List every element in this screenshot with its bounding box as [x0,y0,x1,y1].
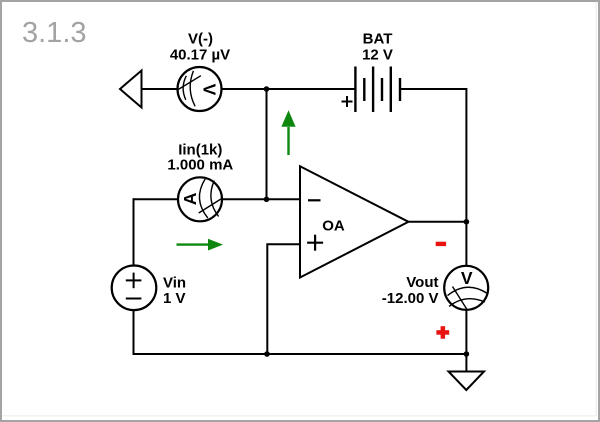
source Vin [112,266,157,311]
wire top rail (input port to battery) [141,88,356,90]
label Iin(1k) 1.000 mA [167,141,233,173]
svg-text:V: V [461,268,473,288]
svg-text:-12.00 V: -12.00 V [382,290,439,307]
wire mid vertical (V- node to inverting node) [266,89,268,199]
wire bottom rail [133,353,467,355]
title 3.1.3 [22,17,87,49]
wire right rail vertical [465,88,467,372]
ammeter Iin [178,177,222,221]
label Vout -12.00 V [382,274,439,307]
label BAT 12 V [362,31,393,64]
svg-text:1 V: 1 V [163,290,186,307]
svg-text:Vout: Vout [406,274,438,291]
wire op-amp plus input to bottom rail [267,244,300,354]
wire battery to right rail [400,88,466,90]
svg-text:12 V: 12 V [362,46,393,63]
svg-text:3.1.3: 3.1.3 [22,17,87,49]
wire op-amp output [409,221,467,223]
node at bottom rail / ground junction [464,351,470,357]
input port triangle [120,71,142,108]
svg-text:Vin: Vin [163,274,186,291]
svg-text:V: V [200,84,220,96]
svg-text:BAT: BAT [363,31,393,48]
node at bottom rail / plus wire junction [264,351,270,357]
polarity mark minus (red) [436,242,446,246]
wire left rail vertical [133,198,135,354]
battery BAT [342,67,401,113]
svg-text:A: A [180,192,200,205]
node at V(-) / battery junction [264,86,270,92]
voltmeter Vout [444,266,488,310]
node at inverting input junction [264,197,270,203]
svg-text:40.17 µV: 40.17 µV [170,46,230,63]
ground [449,372,485,391]
label V(-) 40.17 uV [170,31,230,64]
svg-text:OA: OA [322,217,345,234]
node at op-amp output junction [464,219,470,225]
current arrow right (green) [177,239,224,251]
polarity mark plus (red) [436,326,449,339]
current arrow up (green) [281,110,295,155]
op-amp OA [300,166,409,277]
label Vin 1 V [163,274,186,307]
wire mid rail (left rail through ammeter to op-amp minus input) [134,198,301,200]
svg-text:V(-): V(-) [188,31,213,48]
voltmeter V(-) [178,67,222,111]
svg-text:1.000 mA: 1.000 mA [167,157,233,174]
